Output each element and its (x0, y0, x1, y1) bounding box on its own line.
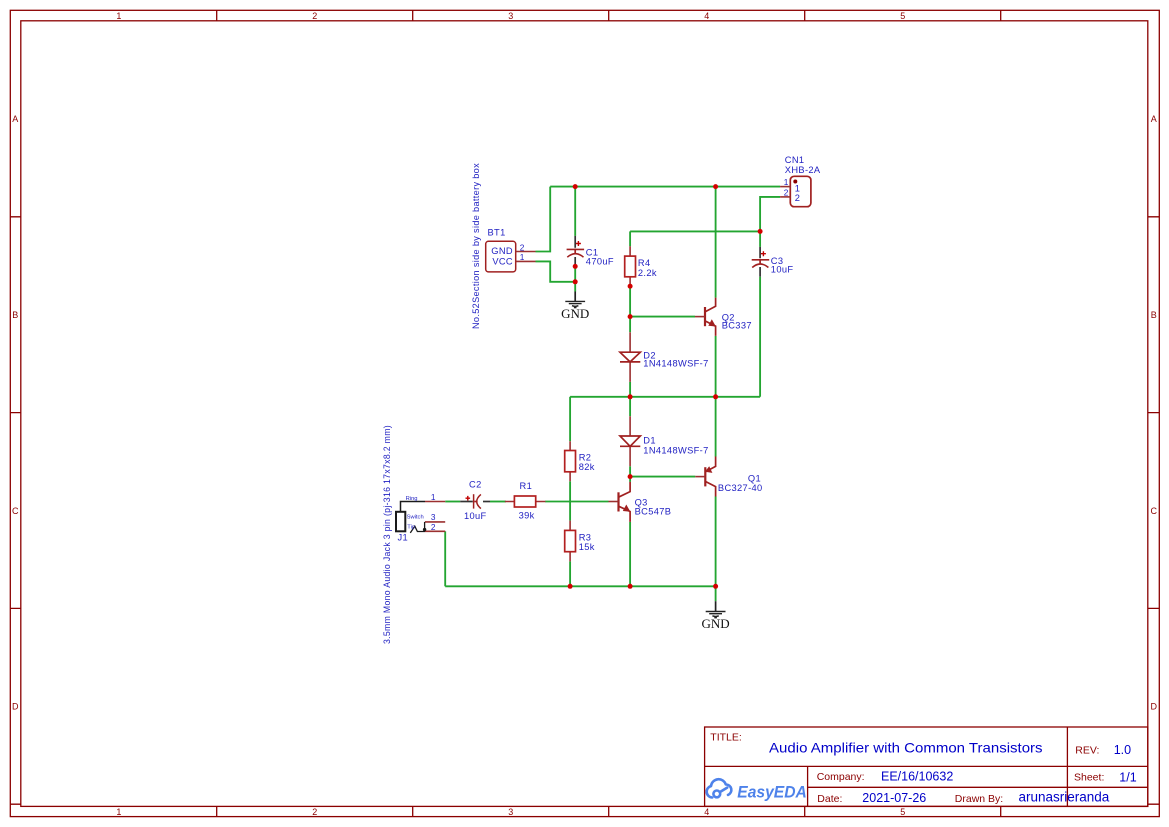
junction top rail / Q2 collector (713, 184, 718, 189)
wire ground rail to GND2 (715, 586, 717, 601)
svg-text:3.5mm Mono Audio Jack 3 pin (p: 3.5mm Mono Audio Jack 3 pin (pj-316 17x7… (382, 425, 392, 644)
svg-text:R2: R2 (579, 452, 592, 462)
wire BT1 pin1 to C1 bottom node (536, 261, 576, 281)
wire BT1 pin2 to top rail (536, 187, 551, 252)
wire Q3 emitter to ground rail (629, 522, 631, 586)
svg-text:GND: GND (561, 306, 589, 321)
svg-text:R1: R1 (520, 481, 533, 491)
svg-text:1: 1 (116, 11, 121, 21)
svg-text:Audio Amplifier with Common Tr: Audio Amplifier with Common Transistors (769, 739, 1043, 755)
wire V+ top rail (550, 186, 780, 188)
wire J1 pin2 down (444, 531, 446, 586)
svg-text:EE/16/10632: EE/16/10632 (881, 770, 953, 784)
wire V+ branch y=231 (630, 230, 760, 232)
svg-text:5: 5 (900, 807, 905, 817)
svg-text:C: C (1151, 506, 1158, 516)
wire D1 cathode to Q1 base node (629, 466, 631, 476)
svg-text:2: 2 (312, 807, 317, 817)
wire Q1 base (630, 476, 695, 478)
svg-text:1: 1 (784, 177, 789, 187)
frame column ticks bottom (217, 806, 1001, 816)
junction dots (568, 184, 763, 589)
wire D2 cathode to mid rail (629, 382, 631, 397)
svg-text:BC337: BC337 (722, 321, 752, 331)
title block divider under title row (705, 765, 1148, 767)
resistor R1 (505, 481, 546, 521)
svg-text:2.2k: 2.2k (638, 268, 657, 278)
svg-text:82k: 82k (579, 462, 595, 472)
junction ground rail / Q3 emitter (628, 584, 633, 589)
svg-text:J1: J1 (398, 533, 409, 543)
svg-text:BC547B: BC547B (635, 507, 672, 517)
junction R4 bottom (628, 284, 633, 289)
svg-text:Date:: Date: (817, 793, 842, 805)
svg-text:5: 5 (900, 11, 905, 21)
frame row ticks right (1148, 217, 1160, 804)
svg-text:EasyEDA: EasyEDA (737, 782, 807, 801)
svg-text:1: 1 (431, 492, 436, 502)
junction Q2 base node (628, 314, 633, 319)
svg-text:1: 1 (795, 184, 801, 194)
svg-text:TITLE:: TITLE: (710, 732, 742, 744)
svg-text:1.0: 1.0 (1114, 743, 1131, 757)
svg-text:10uF: 10uF (771, 265, 794, 275)
wire R3 bottom to ground rail (569, 561, 571, 586)
wire mid rail to R2 (569, 397, 571, 441)
resistor R2 (565, 441, 595, 481)
svg-text:XHB-2A: XHB-2A (785, 165, 821, 175)
frame column ticks top (217, 10, 1001, 20)
audio jack J1 (396, 492, 445, 542)
svg-text:CN1: CN1 (785, 155, 805, 165)
svg-text:B: B (12, 310, 18, 320)
svg-text:4: 4 (704, 807, 709, 817)
junction C1 bottom (573, 264, 578, 269)
title block divider logo cell (807, 766, 809, 806)
resistor R3 (565, 521, 595, 562)
wire R4 bottom to Q2 base node (629, 286, 631, 316)
wire C2 to R1 (490, 501, 506, 503)
junction top rail / C1 (573, 184, 578, 189)
svg-text:39k: 39k (519, 511, 535, 521)
junction mid rail / D2 (628, 394, 633, 399)
wire mid rail to D1 anode (629, 397, 631, 416)
battery connector BT1 (486, 227, 536, 272)
svg-text:1: 1 (520, 252, 525, 262)
svg-text:BC327-40: BC327-40 (718, 483, 763, 493)
svg-text:VCC: VCC (492, 256, 513, 266)
wire R4 top (629, 231, 631, 246)
svg-text:2021-07-26: 2021-07-26 (862, 791, 926, 805)
svg-text:GND: GND (491, 246, 513, 256)
svg-text:D1: D1 (643, 435, 656, 445)
CIRCUIT (445, 187, 780, 602)
svg-text:D: D (1151, 702, 1158, 712)
svg-text:1N4148WSF-7: 1N4148WSF-7 (643, 358, 708, 368)
svg-text:10uF: 10uF (464, 511, 487, 521)
frame row labels right (1151, 114, 1158, 711)
wire C3 top (759, 231, 761, 247)
wire R2 bottom to R3 top (569, 481, 571, 520)
wire Q2 base (630, 316, 695, 318)
svg-text:3: 3 (431, 512, 436, 522)
wire J1 ring to C2 (445, 501, 460, 503)
wire Q2 collector to top rail (715, 187, 717, 298)
diode D2 (620, 332, 709, 382)
svg-text:2: 2 (520, 242, 525, 252)
TITLEBLOCK (705, 727, 1148, 806)
wire Q1 collector to ground rail (715, 497, 717, 587)
svg-text:GND: GND (702, 616, 730, 631)
wire node to D2 anode (629, 317, 631, 333)
svg-text:Company:: Company: (817, 771, 865, 783)
junction C1 / BT1 / GND1 (573, 279, 578, 284)
svg-text:2: 2 (431, 522, 436, 532)
frame row ticks left (10, 217, 20, 804)
svg-text:Drawn By:: Drawn By: (955, 793, 1003, 805)
title block outline (705, 727, 1148, 806)
capacitor C2 (460, 480, 490, 522)
svg-text:1/1: 1/1 (1119, 771, 1136, 785)
wire C1 bottom to node (574, 266, 576, 281)
svg-text:B: B (1151, 310, 1157, 320)
svg-text:1N4148WSF-7: 1N4148WSF-7 (643, 445, 708, 455)
transistor Q1 (695, 457, 762, 497)
junction Q1 base node (628, 474, 633, 479)
svg-text:4: 4 (704, 11, 709, 21)
frame column labels bottom (116, 807, 905, 817)
wire mid rail y=397 (570, 396, 760, 398)
wire C3 bottom to mid rail (759, 277, 761, 397)
wire CN1 pin2 (760, 197, 780, 232)
transistor Q3 (609, 482, 672, 522)
capacitor C3 (752, 247, 794, 277)
wire Q2 emitter to mid rail (715, 336, 717, 397)
svg-text:3: 3 (508, 807, 513, 817)
svg-text:arunasrieranda: arunasrieranda (1019, 790, 1110, 805)
svg-text:2: 2 (795, 193, 801, 203)
svg-text:15k: 15k (579, 542, 595, 552)
svg-text:1: 1 (116, 807, 121, 817)
capacitor C1 (567, 236, 614, 267)
transistor Q2 (695, 298, 752, 336)
ground GND2 (702, 601, 730, 631)
wire R1 to Q3 base (545, 501, 608, 503)
title block divider company/date (808, 786, 1148, 788)
svg-text:BT1: BT1 (488, 227, 506, 237)
diode D1 (620, 416, 709, 466)
svg-text:C: C (12, 506, 19, 516)
svg-text:3: 3 (508, 11, 513, 21)
wire Q3 collector to node (629, 477, 631, 482)
wire ground rail (445, 585, 715, 587)
EasyEDA logo cloud (707, 779, 732, 797)
frame column labels top (116, 11, 905, 21)
svg-text:No.52Section side by side batt: No.52Section side by side battery box (471, 163, 481, 329)
svg-text:2: 2 (312, 11, 317, 21)
svg-text:R3: R3 (579, 532, 592, 542)
svg-text:Sheet:: Sheet: (1074, 772, 1104, 784)
junction branch / C3 (758, 229, 763, 234)
connector CN1 (780, 155, 821, 207)
junction ground rail / R3 (568, 584, 573, 589)
svg-text:A: A (12, 114, 18, 124)
svg-text:Ring: Ring (406, 496, 418, 502)
wire C1 top (574, 187, 576, 236)
svg-text:2: 2 (784, 187, 789, 197)
wire mid rail to Q1 emitter (715, 397, 717, 457)
svg-text:Tip: Tip (407, 525, 415, 531)
svg-text:470uF: 470uF (586, 256, 614, 266)
svg-text:C2: C2 (469, 480, 482, 490)
svg-text:A: A (1151, 114, 1157, 124)
ground GND1 (561, 292, 589, 321)
title block divider REV column (1066, 727, 1068, 806)
svg-text:Q1: Q1 (748, 473, 761, 483)
junction mid rail / Q2 emitter (713, 394, 718, 399)
frame row labels left (12, 114, 19, 711)
svg-text:Switch: Switch (407, 515, 424, 521)
svg-text:D: D (12, 702, 19, 712)
junction ground rail / GND2 (713, 584, 718, 589)
resistor R4 (625, 246, 657, 286)
svg-text:R4: R4 (638, 258, 651, 268)
svg-text:REV:: REV: (1075, 745, 1099, 757)
wire node to GND1 (574, 282, 576, 292)
